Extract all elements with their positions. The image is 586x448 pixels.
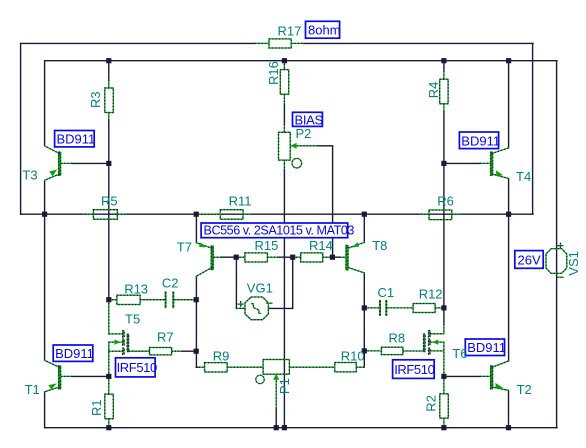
wire VG1 right lead horizontal	[268, 307, 292, 309]
label box 8ohm	[306, 21, 340, 38]
transistor T8	[346, 246, 348, 270]
wire left chain R1 to bottom rail	[108, 419, 110, 428]
wire rail to R4	[443, 61, 445, 71]
junction node R4 top	[441, 58, 446, 63]
svg-text:R1: R1	[89, 399, 104, 416]
resistor R1	[105, 394, 114, 419]
junction node R7 right	[194, 349, 199, 354]
source VG1	[245, 297, 268, 320]
svg-text:T1: T1	[25, 382, 40, 397]
svg-text:T5: T5	[125, 312, 140, 327]
svg-text:T7: T7	[177, 239, 192, 254]
wire P1 wiper green part	[275, 374, 277, 409]
svg-text:BC556 v. 2SA1015 v. MAT03: BC556 v. 2SA1015 v. MAT03	[204, 224, 355, 238]
wire T6 body-source to T2 base junction	[443, 342, 445, 376]
label box BD911 T1	[53, 345, 93, 361]
resistor R16	[280, 70, 288, 95]
potentiometer P1	[263, 360, 289, 375]
junction node T2 base	[441, 374, 446, 379]
resistor R2	[440, 394, 449, 418]
junction node T4 collector top	[506, 58, 511, 63]
junction node R13 left	[106, 297, 111, 302]
resistor R13	[117, 295, 140, 304]
svg-text:R3: R3	[88, 91, 103, 108]
transistor T2	[491, 366, 493, 389]
svg-text:R14: R14	[309, 238, 333, 253]
junction node T8 base	[330, 255, 335, 260]
wire inner left vertical upper	[44, 61, 46, 146]
wire T4 emitter vertical	[508, 179, 510, 215]
wire P2 wiper horizontal green part	[290, 145, 319, 147]
svg-text:P1: P1	[277, 378, 292, 394]
wire R4 bottom lead	[443, 104, 445, 112]
potentiometer P2 marker circle	[292, 158, 302, 168]
wire left chain R13 to T5 drain	[108, 300, 110, 334]
wire R4 to T4 base junction	[443, 112, 445, 164]
wire top rail right segment	[303, 42, 533, 44]
wire P2 wiper horizontal dark part	[319, 145, 333, 147]
resistor R3	[105, 88, 114, 113]
wire P1 wiper dark part	[275, 409, 277, 428]
junction node P2 chain bottom	[282, 425, 287, 430]
wire R17 left lead	[255, 42, 269, 44]
wire T4 base junction down to R12 junction	[443, 163, 445, 308]
wire T8 lower vertical through C1 and R8 junctions	[363, 273, 365, 367]
label box BC556 note	[201, 223, 348, 238]
svg-text:R9: R9	[213, 349, 230, 364]
label box BD911 T3	[55, 131, 95, 147]
junction node R16 top	[282, 58, 287, 63]
svg-text:R8: R8	[389, 331, 406, 346]
wire R3 bottom lead	[108, 113, 110, 121]
label box IRF510 T6	[393, 360, 435, 379]
resistor R4	[440, 79, 448, 104]
svg-text:T6: T6	[452, 346, 467, 361]
junction node R8 left	[362, 348, 367, 353]
resistor R17	[269, 39, 291, 48]
svg-text:IRF510: IRF510	[394, 362, 434, 377]
resistor R15	[245, 253, 268, 262]
svg-text:8ohm: 8ohm	[308, 23, 341, 38]
wire outer left vertical	[20, 43, 22, 214]
svg-text:R11: R11	[229, 194, 252, 209]
wire outer right vertical	[532, 43, 534, 214]
wire inner left vertical lower	[44, 392, 46, 428]
resistor R8	[381, 347, 403, 354]
wire left chain T3 base to R13	[108, 120, 110, 300]
junction node R1 bottom	[106, 425, 111, 430]
wire T2 emitter vertical	[508, 390, 510, 427]
label box BD911 T4	[459, 132, 498, 149]
resistor R12	[413, 304, 435, 313]
wire P2 bottom lead	[283, 160, 285, 170]
junction node C2 right	[194, 297, 199, 302]
svg-text:R13: R13	[124, 281, 148, 296]
junction node R15 R14	[290, 255, 295, 260]
resistor R5	[93, 210, 117, 220]
junction node T3 base	[106, 161, 111, 166]
svg-text:BIAS: BIAS	[295, 112, 324, 127]
wire VG1 left lead vertical	[235, 257, 237, 308]
wire T2 collector vertical	[508, 214, 510, 361]
svg-text:BD911: BD911	[461, 133, 500, 148]
wire T6 drain lead	[443, 324, 445, 334]
capacitor C1	[379, 301, 381, 315]
wire bottom rail	[45, 427, 557, 429]
label box IRF510 T5	[116, 358, 156, 377]
wire VG1 left lead horizontal	[236, 307, 245, 309]
wire top rail left segment	[21, 42, 255, 44]
label box BIAS	[293, 112, 323, 126]
wire VG1 right lead vertical	[292, 257, 294, 308]
potentiometer P2	[279, 132, 291, 160]
label box 26V	[515, 251, 543, 269]
resistor R14	[301, 253, 323, 262]
svg-text:BD911: BD911	[57, 132, 96, 147]
svg-text:P2: P2	[296, 126, 312, 141]
wire left chain T1 base to R1	[108, 376, 110, 394]
source VS1	[546, 249, 567, 274]
wire T7 lower vertical through C2 and R7 junctions	[195, 276, 197, 367]
junction node mid rail T8	[362, 212, 367, 217]
svg-text:R17: R17	[278, 24, 302, 39]
mosfet T6	[430, 333, 444, 335]
svg-text:VG1: VG1	[247, 281, 273, 296]
wire left chain T5 body-source	[108, 342, 110, 376]
wire T2 base junction to R2	[443, 376, 445, 393]
resistor R10	[335, 363, 357, 372]
wire T7 emitter vertical to mid rail	[195, 214, 197, 243]
transistor T3	[59, 152, 61, 175]
wire R12 junction to T6 drain	[443, 308, 445, 324]
junction node mid rail right	[506, 212, 511, 217]
wire T4 collector vertical	[508, 61, 510, 148]
wire R17 right lead	[291, 42, 303, 44]
wire R16 top lead	[283, 61, 285, 70]
junction node mid rail T7	[194, 212, 199, 217]
svg-text:R6: R6	[437, 194, 454, 209]
svg-text:BD911: BD911	[55, 346, 94, 361]
mosfet T5	[109, 333, 123, 335]
svg-text:BD911: BD911	[467, 340, 506, 355]
svg-text:R10: R10	[341, 349, 365, 364]
junction node C1 left	[362, 305, 367, 310]
label box BD911 T2	[465, 339, 504, 356]
svg-text:R2: R2	[424, 395, 439, 412]
wire P2 bottom to bottom rail	[283, 170, 285, 428]
transistor T4	[491, 152, 493, 175]
junction node T4 base	[441, 161, 446, 166]
wire R3 top lead	[108, 80, 110, 88]
svg-text:26V: 26V	[518, 252, 541, 267]
junction node R2 bottom	[441, 425, 446, 430]
wire second rail	[45, 60, 557, 62]
svg-text:R4: R4	[426, 82, 441, 99]
wire R9 row elbow	[196, 366, 199, 368]
svg-text:VS1: VS1	[566, 251, 581, 276]
svg-text:IRF510: IRF510	[117, 360, 157, 375]
wire mid rail	[21, 213, 533, 215]
svg-text:R7: R7	[157, 329, 174, 344]
svg-text:T3: T3	[22, 168, 37, 183]
wire right outer vertical VS1 branch	[556, 61, 558, 428]
resistor R7	[150, 348, 172, 355]
wire inner left vertical middle	[44, 180, 46, 360]
svg-text:C1: C1	[378, 285, 395, 300]
junction node mid rail left	[42, 212, 47, 217]
capacitor C2	[165, 292, 167, 307]
wire R4 top lead	[443, 71, 445, 79]
transistor T1	[59, 366, 61, 389]
wire left chain rail to R3	[108, 61, 110, 80]
junction node R12 right	[441, 305, 446, 310]
potentiometer P1 marker circle	[256, 375, 264, 383]
wire P2 wiper vertical down to T8 base junction	[332, 146, 334, 257]
resistor R6	[429, 210, 452, 220]
junction node T2 emitter bottom	[506, 425, 511, 430]
junction node P1 wiper bottom	[274, 425, 279, 430]
wire R2 bottom lead	[443, 418, 445, 428]
resistor R11	[220, 210, 243, 220]
wire R16 to P2	[283, 94, 285, 104]
transistor T7	[211, 246, 213, 269]
svg-text:R16: R16	[266, 61, 281, 85]
svg-text:T2: T2	[517, 382, 532, 397]
svg-text:C2: C2	[162, 276, 179, 291]
svg-text:T4: T4	[516, 169, 531, 184]
svg-text:R15: R15	[255, 238, 279, 253]
junction node T1 base	[106, 374, 111, 379]
svg-text:R12: R12	[419, 287, 443, 302]
junction node T7 base	[234, 255, 239, 260]
junction node R3 top	[106, 58, 111, 63]
svg-text:R5: R5	[101, 194, 118, 209]
wire T8 emitter vertical to mid rail	[363, 214, 365, 242]
resistor R9	[205, 363, 228, 372]
svg-text:T8: T8	[372, 238, 387, 253]
